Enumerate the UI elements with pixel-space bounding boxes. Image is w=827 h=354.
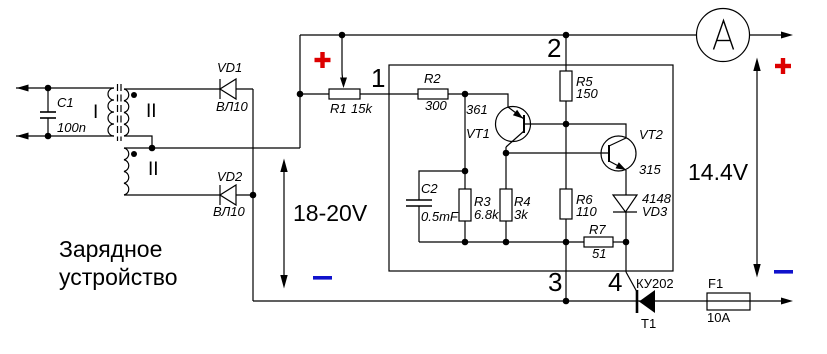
thyristor T1 xyxy=(637,290,655,313)
node C1 bottom xyxy=(45,133,52,140)
resistor R3 xyxy=(459,189,471,242)
terminal arrow bottom-left xyxy=(17,133,29,140)
node VT1 collector xyxy=(503,150,510,157)
node ground rail xyxy=(563,298,570,305)
ammeter A xyxy=(697,9,750,62)
svg-text:315: 315 xyxy=(639,162,661,177)
svg-text:4: 4 xyxy=(608,267,622,297)
node R4 bottom xyxy=(503,239,510,246)
svg-text:I: I xyxy=(93,102,98,123)
svg-text:Зарядное: Зарядное xyxy=(59,236,162,262)
wire secondary2 bottom to VD2 xyxy=(124,194,220,196)
svg-text:VT2: VT2 xyxy=(639,127,664,142)
diode VD3 xyxy=(613,195,637,272)
node R3 bottom xyxy=(462,239,469,246)
capacitor C2 xyxy=(406,171,465,242)
terminal arrow top-left xyxy=(17,85,29,92)
capacitor C1 xyxy=(40,88,56,136)
node C1 top xyxy=(45,85,52,92)
fuse F1 xyxy=(707,293,750,310)
wire R2 to VT1 emitter xyxy=(465,94,508,107)
svg-text:R2: R2 xyxy=(424,71,441,86)
svg-text:300: 300 xyxy=(425,98,447,113)
svg-text:КУ202: КУ202 xyxy=(636,276,674,291)
svg-text:1: 1 xyxy=(371,63,385,93)
wire diode bus down xyxy=(252,89,254,301)
svg-text:II: II xyxy=(146,101,157,122)
minus sign left xyxy=(313,276,332,280)
node center tap xyxy=(149,145,156,152)
svg-text:150: 150 xyxy=(576,86,598,101)
svg-text:100n: 100n xyxy=(57,120,86,135)
transistor VT2 xyxy=(601,136,636,171)
svg-text:Т1: Т1 xyxy=(641,316,656,331)
wire internal ground rail xyxy=(419,241,626,243)
resistor R2 xyxy=(418,89,465,99)
wire input top xyxy=(16,87,114,89)
wire VT1 collector to VT2 base xyxy=(506,152,609,154)
wire VT1 base to VT2 collector xyxy=(566,124,626,138)
node R6 bottom xyxy=(563,239,570,246)
resistor R1 wiper arrow xyxy=(340,35,347,88)
transistor VT1 xyxy=(496,107,567,154)
svg-text:C1: C1 xyxy=(57,95,74,110)
svg-text:ВЛ10: ВЛ10 xyxy=(213,204,246,219)
svg-text:F1: F1 xyxy=(708,276,723,291)
node R7 right xyxy=(623,239,630,246)
resistor R4 xyxy=(500,153,512,242)
svg-text:51: 51 xyxy=(592,246,606,261)
measure arrow 18-20V xyxy=(280,159,287,289)
svg-text:18-20V: 18-20V xyxy=(293,200,368,226)
regulator module box xyxy=(389,65,673,271)
wire input bottom xyxy=(16,135,114,137)
svg-text:R1: R1 xyxy=(330,101,347,116)
node R2 right xyxy=(462,91,469,98)
node VD2 output xyxy=(250,192,257,199)
wire secondary1 top to VD1 xyxy=(124,88,220,90)
plus sign left xyxy=(315,52,331,68)
node C2 junction xyxy=(462,168,469,175)
svg-text:устройство: устройство xyxy=(59,264,178,290)
svg-text:361: 361 xyxy=(466,102,488,117)
resistor R7 xyxy=(584,237,613,247)
svg-text:110: 110 xyxy=(576,204,597,219)
diode VD1 xyxy=(220,79,253,99)
node R1 left xyxy=(297,91,304,98)
resistor R1 xyxy=(300,89,418,99)
svg-text:VD3: VD3 xyxy=(642,204,668,219)
wire top rail xyxy=(300,34,697,36)
svg-text:0.5mF: 0.5mF xyxy=(421,209,459,224)
phase dot secondary 1 xyxy=(131,92,137,98)
svg-text:3: 3 xyxy=(548,267,562,297)
svg-text:II: II xyxy=(148,159,159,180)
svg-text:ВЛ10: ВЛ10 xyxy=(216,99,249,114)
wire ammeter output xyxy=(750,34,782,36)
resistor R6 xyxy=(560,189,572,301)
measure arrow 14.4V xyxy=(753,58,760,278)
wire center tap to riser xyxy=(124,147,300,149)
minus sign right xyxy=(774,270,793,274)
thyristor T1 gate xyxy=(626,272,637,292)
svg-text:15k: 15k xyxy=(351,101,373,116)
phase dot secondary 2 xyxy=(131,151,137,157)
node R1 wiper top xyxy=(339,32,346,39)
svg-text:VT1: VT1 xyxy=(466,126,490,141)
svg-text:2: 2 xyxy=(547,33,561,63)
diode VD2 xyxy=(220,185,253,205)
wire secondary1 bottom elbow to center tap xyxy=(124,136,152,148)
transformer core xyxy=(118,84,122,141)
plus sign right xyxy=(775,58,791,74)
resistor R5 xyxy=(560,35,572,189)
svg-text:R7: R7 xyxy=(589,222,606,237)
wire node1 column xyxy=(464,94,466,189)
terminal arrow top-right xyxy=(781,32,793,39)
wire VT2 emitter xyxy=(625,170,627,195)
transformer secondary winding II-1 xyxy=(124,89,129,136)
transformer secondary winding II-2 xyxy=(124,148,129,195)
svg-text:VD1: VD1 xyxy=(217,60,242,75)
svg-text:6.8k: 6.8k xyxy=(474,207,500,222)
node rail node2 xyxy=(563,32,570,39)
svg-text:14.4V: 14.4V xyxy=(688,159,749,185)
svg-text:3k: 3k xyxy=(514,207,529,222)
wire node3 label column / bottom rail xyxy=(253,300,781,302)
terminal arrow bottom-right xyxy=(781,298,793,305)
transformer T primary winding xyxy=(108,88,114,136)
svg-text:C2: C2 xyxy=(421,181,438,196)
svg-text:10А: 10А xyxy=(707,310,730,325)
svg-text:VD2: VD2 xyxy=(217,169,243,184)
node VT1 base / R5 bottom xyxy=(563,121,570,128)
wire riser to plus rail xyxy=(299,35,301,148)
